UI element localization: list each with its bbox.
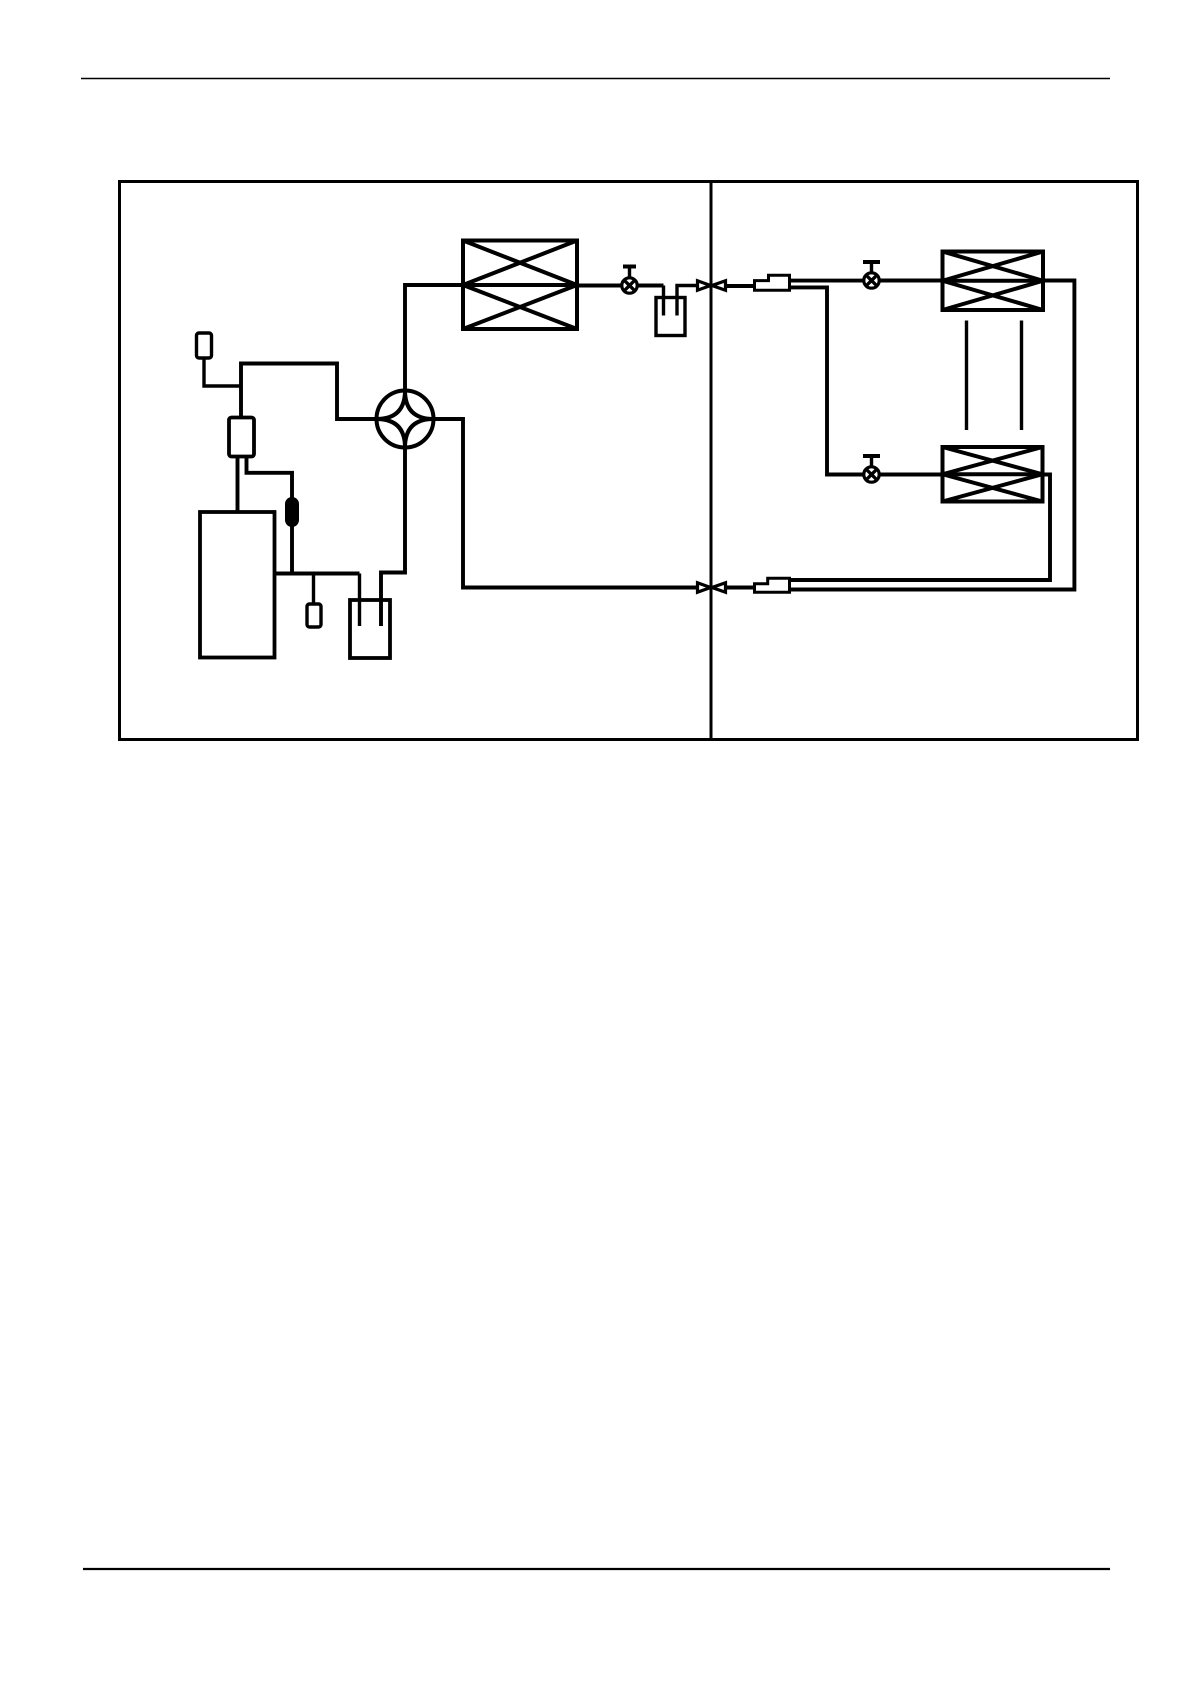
wire: pressure switch to liquid line xyxy=(204,358,241,386)
wire: HX2 right riser to lower return xyxy=(790,281,1075,590)
valve V1 (hand valve with T handle) xyxy=(622,266,637,294)
wire: 4-way valve top port to HX1 xyxy=(405,285,463,391)
wire: HX3 right riser to upper return xyxy=(790,475,1051,581)
flare union U2 xyxy=(755,578,790,592)
suction line: compressor to accumulator inlet xyxy=(275,572,360,576)
partition wall xyxy=(710,182,713,740)
heat exchanger HX1 (left coil) xyxy=(463,241,577,330)
compressor xyxy=(200,512,275,658)
accumulator vessel xyxy=(350,600,390,658)
accumulator inlet tube xyxy=(358,574,361,627)
service valve SV1 (liquid line, at wall) xyxy=(698,281,726,290)
wire: SV1 to flare union U1 xyxy=(726,284,755,288)
wire: filter top loop to 4-way valve left port xyxy=(241,364,377,420)
wire: valve V3 to HX3 xyxy=(879,473,943,477)
unit enclosure frame xyxy=(120,182,1138,740)
wire: valve V1 to receiver xyxy=(637,284,664,288)
wire: U2 to SV2 xyxy=(726,586,755,590)
wire: SV2 to 4-way valve right port xyxy=(434,419,698,588)
heat exchanger HX2 (top right coil) xyxy=(943,252,1044,311)
header rule xyxy=(81,78,1110,80)
duct line B between right coils xyxy=(1020,321,1023,431)
receiver outlet tube xyxy=(677,286,697,316)
valve V2 (top right, with T handle) xyxy=(863,261,880,289)
filter drier xyxy=(229,418,254,457)
service valve SV2 (gas line, at wall) xyxy=(698,583,726,592)
footer rule xyxy=(83,1568,1110,1570)
wire: HX1 to valve V1 xyxy=(577,284,622,288)
duct line A between right coils xyxy=(965,321,968,431)
flare union U1 xyxy=(755,275,790,290)
sight glass (solid) xyxy=(286,498,299,527)
heat exchanger HX3 (bottom right coil) xyxy=(943,447,1043,502)
muffler xyxy=(307,604,321,627)
muffler stub wire xyxy=(312,574,315,605)
4-way reversing valve xyxy=(377,391,434,448)
wire: U1 to valve V2 xyxy=(789,279,864,283)
wire: valve V2 to HX2 xyxy=(879,279,943,283)
wire: 4-way valve bottom port to accumulator xyxy=(381,448,405,627)
branch wire: U1 down to valve V3 xyxy=(790,287,865,474)
receiver inlet tube xyxy=(662,286,665,316)
pressure switch xyxy=(197,333,212,358)
valve V3 (bottom right, with T handle) xyxy=(863,455,880,483)
wire: filter to sight glass line xyxy=(247,457,293,574)
wire: filter to compressor xyxy=(236,457,240,513)
receiver vessel xyxy=(656,298,685,336)
